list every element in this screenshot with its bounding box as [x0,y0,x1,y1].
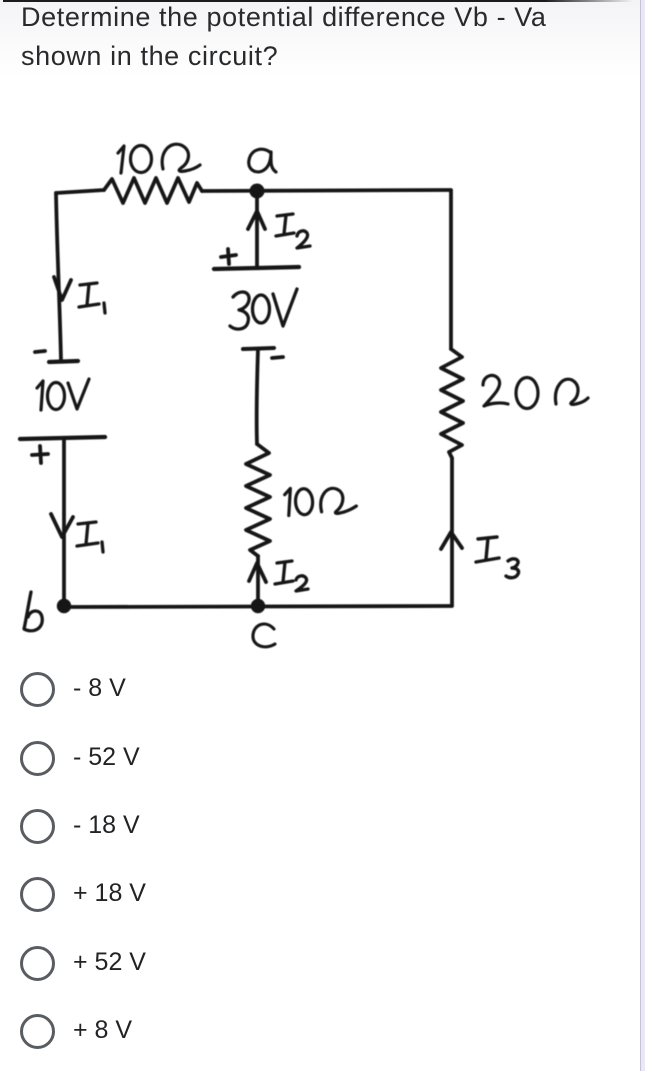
battery B1 negative plate [49,361,78,362]
label I1 upper [79,283,105,313]
node c junction dot [253,601,264,612]
wire top-right segment [202,190,451,191]
plus sign B1 [32,446,48,463]
plus sign B2 [221,249,236,264]
label 10ohm middle [284,485,356,516]
resistor R3 20ohm vertical [441,349,463,458]
arrow I2 top (up) [248,211,265,229]
label 20ohm [483,375,588,408]
arrow I2 bottom (up) [249,563,266,582]
label I1 lower [77,522,103,552]
wire right vertical upper [449,191,453,349]
wire node a to battery B2 [255,193,259,266]
node a junction dot [251,185,262,196]
node label a [249,149,276,172]
label I3 [476,537,519,578]
battery B2 positive plate [214,267,299,269]
resistor R2 10ohm vertical [246,444,270,556]
wire right vertical lower [450,458,454,606]
minus sign B1 [35,351,45,352]
node b junction dot [59,601,70,612]
node label b [24,592,42,631]
wire top-left segment [56,190,104,193]
label I2 top [276,214,310,248]
wire B2 to resistor R2 [257,349,258,444]
resistor R1 10ohm horizontal [104,178,202,203]
label I2 bottom [275,561,308,591]
arrow I1 lower (down) [51,514,73,537]
arrow I1 upper (down) [54,277,71,300]
label 10ohm top [118,144,200,173]
label 10V [37,379,89,410]
wire left vertical upper [56,193,61,361]
arrow I3 (up) [441,532,462,549]
wire R2 to node c [256,556,260,604]
node label c [253,624,275,647]
minus sign B2 [272,357,283,358]
label 30V [230,289,297,329]
battery B1 positive plate [20,437,105,439]
battery B2 negative plate [243,348,274,349]
wire bottom [64,606,451,607]
wire left vertical lower [62,438,66,604]
